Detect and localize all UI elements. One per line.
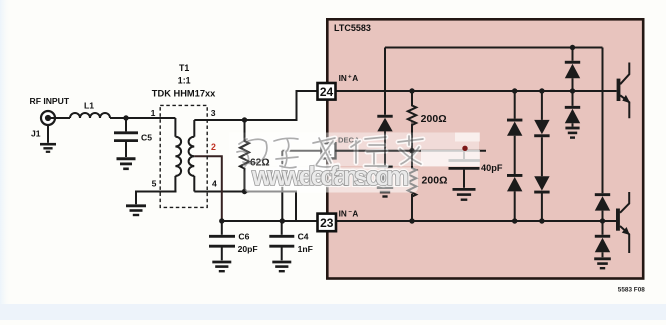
node dot pin3 junction xyxy=(242,117,247,122)
svg-text:20pF: 20pF xyxy=(238,244,258,254)
diode right tail upper (up) xyxy=(595,193,610,196)
wire diode column C stems xyxy=(572,48,574,127)
wire 40pF stem xyxy=(463,150,465,159)
diode col A upper (up) xyxy=(507,119,522,122)
diode col C lower (up) xyxy=(565,106,580,109)
node dot diode col C mid xyxy=(570,88,575,93)
ground under C6 xyxy=(212,261,231,264)
wire riser left diode chain xyxy=(384,48,386,187)
wire DECA restamp xyxy=(335,150,412,152)
ground right tail xyxy=(594,257,611,260)
diode col B upper (down) xyxy=(534,120,549,134)
wire T1 pin5 to ground xyxy=(136,192,177,205)
svg-text:C6: C6 xyxy=(238,231,249,241)
wire top rail xyxy=(385,47,603,49)
wire 200ohm chain restamp xyxy=(412,122,421,169)
watermark char 4 white halo xyxy=(351,137,386,166)
diode col B lower (down) xyxy=(534,176,549,190)
svg-text:T1: T1 xyxy=(179,63,189,73)
transistor Q2 collector xyxy=(620,192,629,213)
svg-text:C5: C5 xyxy=(141,132,152,142)
ground under C5 xyxy=(117,157,136,160)
svg-text:40pF: 40pF xyxy=(481,163,503,173)
pin box 1 (DECA) xyxy=(322,143,336,158)
svg-text:1:1: 1:1 xyxy=(178,75,191,85)
watermark char 5 gray xyxy=(398,136,423,164)
svg-text:5: 5 xyxy=(152,179,157,189)
wire RF input line xyxy=(48,117,70,119)
node dot diode col B top xyxy=(539,88,544,93)
svg-text:1: 1 xyxy=(151,108,156,118)
svg-text:C4: C4 xyxy=(298,231,309,241)
svg-text:23: 23 xyxy=(320,216,334,230)
transformer T1 primary winding xyxy=(174,118,176,137)
watermark char 3 gray xyxy=(313,138,338,167)
wire DECA inside IC xyxy=(335,150,486,152)
pin box 24 xyxy=(318,83,336,100)
svg-text:IN: IN xyxy=(339,209,347,218)
diode right tail lower (up) xyxy=(595,235,610,238)
wire DECA outer xyxy=(282,151,322,221)
wire C4 to ground xyxy=(281,248,283,261)
capacitor C6 xyxy=(209,236,235,246)
transistor Q1 emitter xyxy=(620,95,629,118)
svg-text:3: 3 xyxy=(211,108,216,118)
wire right tail column xyxy=(602,48,604,258)
watermark char 2 gray xyxy=(274,138,298,167)
wire diode column B stems xyxy=(541,91,543,221)
node dot 200ohm bottom xyxy=(409,218,414,223)
wire node IN-A outer xyxy=(222,220,296,222)
wire J1 center feed xyxy=(48,117,58,119)
wire 40pF to ground xyxy=(463,170,465,188)
resistor 200ohm lower stem xyxy=(408,151,416,221)
svg-text:RF INPUT: RF INPUT xyxy=(30,96,70,106)
svg-text:www.elecfans.com: www.elecfans.com xyxy=(251,163,409,191)
capacitor C4 xyxy=(269,236,294,246)
wire C4 stem xyxy=(281,221,283,235)
wire T1 pin4 to IN-A xyxy=(194,192,318,222)
resistor 62ohm xyxy=(240,120,249,192)
svg-text:62Ω: 62Ω xyxy=(250,158,270,169)
wire L1 to T1 xyxy=(110,117,175,119)
transistor Q2 base bar xyxy=(616,209,620,231)
svg-text:J1: J1 xyxy=(31,129,41,139)
node dot DECA mid restamp xyxy=(409,148,414,153)
svg-text:A: A xyxy=(352,209,358,218)
ground under J1 xyxy=(40,143,56,146)
svg-text:24: 24 xyxy=(320,85,334,99)
ground diode column C xyxy=(565,127,579,130)
wire J1 to ground xyxy=(47,125,49,143)
svg-text:LTC5583: LTC5583 xyxy=(334,23,371,33)
watermark char 1 white halo xyxy=(237,139,267,166)
watermark char 2 white halo xyxy=(274,138,298,167)
transformer T1 dashed box xyxy=(160,105,207,207)
node dot diode col A top xyxy=(512,88,517,93)
transformer T1 secondary winding xyxy=(193,120,195,137)
transistor Q1 collector xyxy=(620,63,629,85)
capacitor 40pF xyxy=(449,161,480,169)
node dot L1/C5 xyxy=(123,115,128,120)
wire T1 pin3 to IN+A xyxy=(194,91,318,120)
svg-text:L1: L1 xyxy=(84,101,94,111)
transistor Q2 emitter arrow xyxy=(622,227,630,235)
resistor 200ohm upper stem xyxy=(408,91,416,151)
diode col C upper (up) xyxy=(565,61,580,64)
wire C6 stem xyxy=(221,221,223,235)
resistor 62ohm restamp xyxy=(240,120,249,192)
connector J1 xyxy=(41,111,55,125)
capacitor C5 plates xyxy=(114,133,138,141)
ground left diode chain xyxy=(377,186,393,189)
node dot C4 junction xyxy=(280,218,285,223)
node dot pin4 junction xyxy=(242,189,247,194)
wire T1 pin2 center tap xyxy=(194,156,222,221)
svg-text:2: 2 xyxy=(211,142,216,152)
svg-text:200Ω: 200Ω xyxy=(421,114,447,125)
svg-text:200Ω: 200Ω xyxy=(422,176,448,187)
IC body LTC5583 xyxy=(327,19,643,278)
svg-text:IN: IN xyxy=(339,74,347,83)
wire C5 to ground xyxy=(125,142,127,157)
transistor Q1 base bar xyxy=(617,79,621,101)
wire IN-A inside IC xyxy=(335,220,616,222)
node dot rail xyxy=(570,45,575,50)
node dot C6 junction xyxy=(219,218,224,223)
watermark char 3 white halo xyxy=(313,138,338,167)
node dot diode col B bottom xyxy=(539,218,544,223)
node dot diode col A bottom xyxy=(512,218,517,223)
diode col A lower (up) xyxy=(507,174,522,177)
watermark char 1 gray xyxy=(237,139,267,166)
svg-text:A: A xyxy=(352,74,358,83)
ground under C4 xyxy=(272,261,291,264)
node dot 200ohm top xyxy=(409,88,414,93)
svg-text:5583 F08: 5583 F08 xyxy=(618,286,645,293)
node dot DECA mid xyxy=(409,148,414,153)
diode D1 chain left upper xyxy=(377,115,392,118)
node dot right tail IN-A xyxy=(600,218,605,223)
wire riser restamp xyxy=(384,132,386,165)
diode D2 chain left lower xyxy=(377,165,392,168)
wire C6 to ground xyxy=(221,248,223,261)
svg-text:4: 4 xyxy=(212,178,217,188)
inductor L1 xyxy=(70,113,110,118)
watermark band chinese xyxy=(229,133,480,193)
transistor Q2 emitter xyxy=(620,226,629,253)
wire C5 stem xyxy=(125,118,127,131)
ground 40pF xyxy=(453,188,476,191)
wire diode column A stems xyxy=(514,91,516,221)
node dot 40pF red xyxy=(462,146,467,151)
watermark char 5 white halo xyxy=(398,136,423,164)
svg-text:1nF: 1nF xyxy=(298,244,313,254)
transistor Q1 emitter arrow xyxy=(622,95,630,103)
watermark char 4 gray xyxy=(351,137,386,166)
ground under T1 pin 5 xyxy=(126,204,146,207)
pin box 23 xyxy=(318,214,337,232)
wire IN+A inside IC xyxy=(335,90,617,92)
svg-text:TDK HHM17xx: TDK HHM17xx xyxy=(152,89,216,99)
